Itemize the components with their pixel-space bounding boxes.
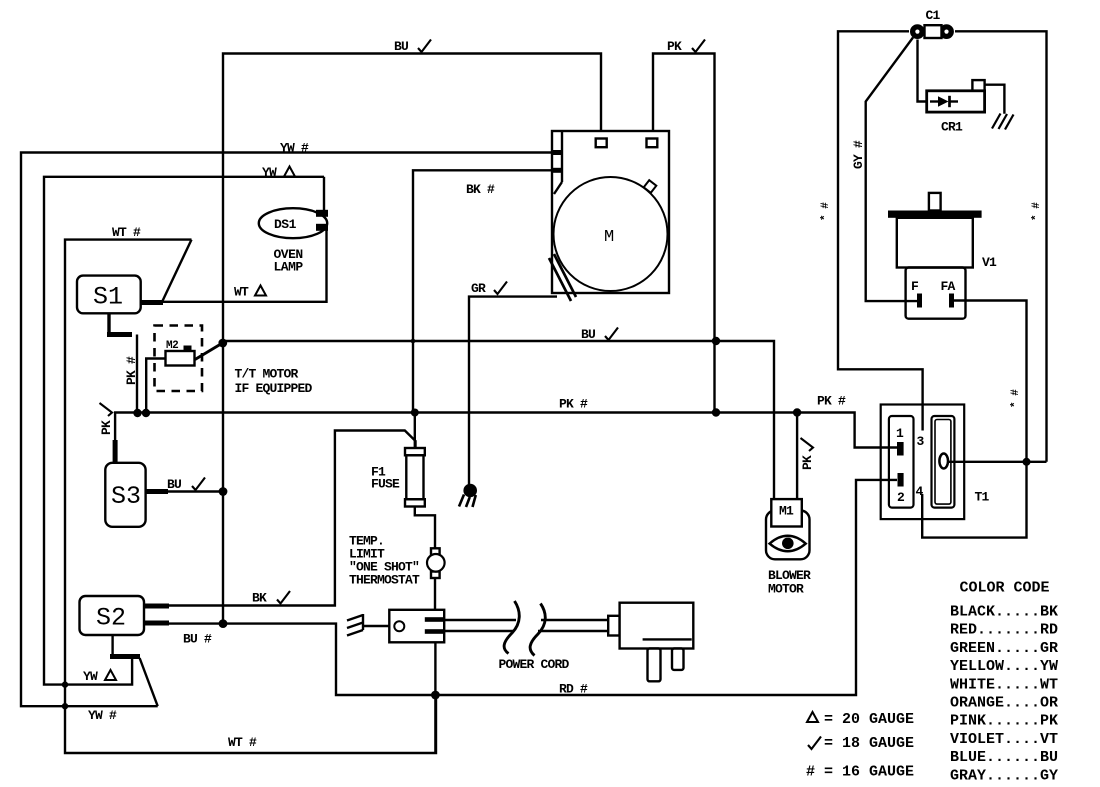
- svg-text:COLOR CODE: COLOR CODE: [960, 580, 1050, 597]
- svg-text:PK #: PK #: [124, 356, 139, 385]
- svg-text:PK #: PK #: [559, 397, 588, 412]
- svg-text:BU: BU: [167, 477, 181, 492]
- svg-text:PK: PK: [800, 455, 815, 470]
- svg-text:* #: * #: [1031, 202, 1043, 221]
- svg-text:F: F: [911, 279, 919, 294]
- svg-text:THERMOSTAT: THERMOSTAT: [349, 573, 420, 588]
- svg-text:GRAY......GY: GRAY......GY: [950, 767, 1058, 784]
- svg-text:2: 2: [897, 490, 905, 505]
- svg-text:M1: M1: [779, 504, 794, 519]
- svg-text:PINK......PK: PINK......PK: [950, 713, 1058, 730]
- svg-text:IF EQUIPPED: IF EQUIPPED: [235, 381, 313, 396]
- svg-text:1: 1: [896, 426, 904, 441]
- svg-text:LAMP: LAMP: [274, 260, 304, 275]
- svg-text:WT: WT: [234, 285, 249, 300]
- svg-text:V1: V1: [982, 255, 997, 270]
- svg-text:FUSE: FUSE: [371, 477, 400, 492]
- svg-text:BLUE......BU: BLUE......BU: [950, 749, 1058, 766]
- svg-text:BK: BK: [252, 591, 267, 606]
- svg-text:M: M: [604, 228, 614, 247]
- svg-text:BLACK.....BK: BLACK.....BK: [950, 604, 1058, 621]
- svg-text:WT #: WT #: [228, 735, 257, 750]
- svg-text:BU #: BU #: [183, 632, 212, 647]
- svg-text:YW: YW: [262, 165, 277, 180]
- svg-text:YW #: YW #: [88, 708, 117, 723]
- svg-text:# = 16 GAUGE: # = 16 GAUGE: [806, 764, 914, 781]
- svg-text:BK #: BK #: [466, 182, 495, 197]
- svg-text:= 18 GAUGE: = 18 GAUGE: [824, 735, 914, 752]
- svg-text:GY #: GY #: [851, 140, 866, 169]
- svg-text:FA: FA: [941, 279, 956, 294]
- svg-text:DS1: DS1: [274, 217, 297, 232]
- svg-text:MOTOR: MOTOR: [768, 582, 804, 597]
- svg-text:= 20 GAUGE: = 20 GAUGE: [824, 711, 914, 728]
- svg-text:M2: M2: [166, 340, 178, 352]
- svg-text:GR: GR: [471, 281, 486, 296]
- svg-text:WT #: WT #: [112, 225, 141, 240]
- svg-text:RED.......RD: RED.......RD: [950, 622, 1058, 639]
- svg-text:WHITE.....WT: WHITE.....WT: [950, 676, 1058, 693]
- svg-text:YW: YW: [83, 669, 98, 684]
- svg-text:C1: C1: [926, 8, 941, 23]
- svg-text:POWER CORD: POWER CORD: [499, 657, 570, 672]
- svg-text:S3: S3: [111, 482, 141, 511]
- svg-text:S1: S1: [93, 283, 123, 312]
- svg-text:RD #: RD #: [559, 682, 588, 697]
- svg-text:VIOLET....VT: VIOLET....VT: [950, 731, 1058, 748]
- svg-text:ORANGE....OR: ORANGE....OR: [950, 695, 1058, 712]
- svg-text:3: 3: [917, 434, 925, 449]
- svg-text:BU: BU: [581, 327, 595, 342]
- svg-text:PK: PK: [99, 420, 114, 435]
- svg-text:T1: T1: [975, 490, 990, 505]
- svg-text:S2: S2: [96, 604, 126, 633]
- svg-text:BU: BU: [394, 39, 408, 54]
- svg-text:GREEN.....GR: GREEN.....GR: [950, 640, 1058, 657]
- svg-text:* #: * #: [820, 202, 832, 221]
- svg-text:CR1: CR1: [941, 120, 963, 135]
- svg-text:4: 4: [916, 484, 924, 499]
- svg-text:PK: PK: [667, 39, 682, 54]
- svg-text:PK #: PK #: [817, 394, 846, 409]
- svg-text:* #: * #: [1010, 389, 1022, 408]
- svg-text:YW #: YW #: [280, 141, 309, 156]
- svg-text:T/T MOTOR: T/T MOTOR: [235, 367, 299, 382]
- svg-text:YELLOW....YW: YELLOW....YW: [950, 658, 1058, 675]
